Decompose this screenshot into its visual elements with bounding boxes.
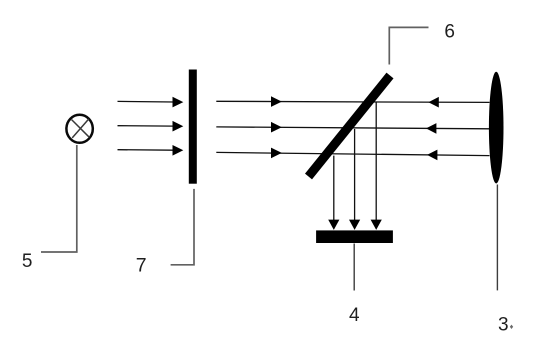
svg-text:7: 7 (136, 254, 147, 276)
svg-text:4: 4 (349, 305, 360, 326)
svg-text:3: 3 (498, 315, 509, 336)
svg-text:6: 6 (444, 22, 455, 43)
svg-text:5: 5 (22, 251, 33, 272)
